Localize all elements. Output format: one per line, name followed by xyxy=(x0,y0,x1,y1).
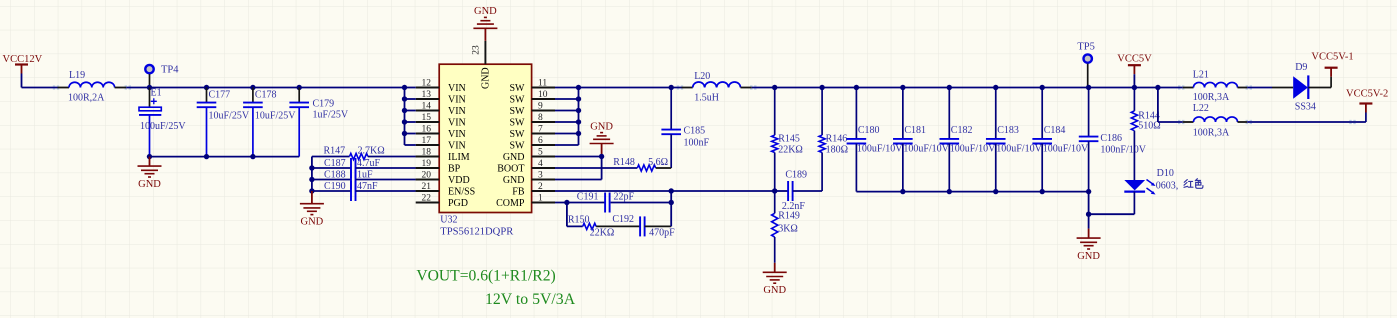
svg-text:1: 1 xyxy=(538,194,543,204)
svg-text:22KΩ: 22KΩ xyxy=(590,228,615,239)
svg-text:C191: C191 xyxy=(577,192,599,203)
ground output text xyxy=(1077,251,1100,262)
value C182 100uF/10V xyxy=(950,144,996,155)
value C185 100nF xyxy=(684,138,710,149)
junction C177 top xyxy=(204,85,209,90)
value C181 100uF/10V xyxy=(903,144,949,155)
junction C177 bottom xyxy=(204,154,209,159)
svg-text:GND: GND xyxy=(763,285,786,296)
pin 15 VIN xyxy=(416,113,466,128)
svg-text:11: 11 xyxy=(538,79,547,89)
svg-text:GND: GND xyxy=(481,67,492,89)
junction SW bus pin 9 xyxy=(576,108,581,113)
pin 2 FB xyxy=(512,182,555,197)
value R148 5.6&#937; xyxy=(648,157,668,168)
value L20 1.5uH xyxy=(694,92,719,103)
label C185 xyxy=(684,126,706,137)
label R144 xyxy=(1138,111,1160,122)
svg-text:R149: R149 xyxy=(778,211,800,222)
svg-text:C178: C178 xyxy=(255,89,277,100)
svg-text:7: 7 xyxy=(538,125,543,135)
junction SW bus pin 10 xyxy=(576,96,581,101)
value D10 0603 xyxy=(1156,181,1179,192)
value C178 10uF/25V xyxy=(255,110,296,121)
svg-text:C185: C185 xyxy=(684,126,706,137)
svg-text:47nF: 47nF xyxy=(357,181,378,192)
diode D9 SS34 xyxy=(1293,75,1308,99)
junction C181 top xyxy=(900,85,905,90)
value C177 10uF/25V xyxy=(209,110,250,121)
svg-text:COMP: COMP xyxy=(496,198,525,209)
value C190 47nF xyxy=(357,181,378,192)
svg-text:TP4: TP4 xyxy=(161,65,179,76)
svg-text:100uF/10V: 100uF/10V xyxy=(1043,144,1089,155)
svg-text:0603,: 0603, xyxy=(1156,181,1179,192)
pin stub L19 left xyxy=(53,86,69,89)
ground output xyxy=(1077,229,1101,249)
svg-text:1uF: 1uF xyxy=(357,170,373,181)
label C181 xyxy=(904,125,926,136)
svg-text:5.6Ω: 5.6Ω xyxy=(648,157,668,168)
junction C187 left xyxy=(309,165,314,170)
svg-text:13: 13 xyxy=(422,90,432,100)
svg-text:C184: C184 xyxy=(1044,125,1066,136)
label C188 xyxy=(324,170,346,181)
capacitor C187 xyxy=(312,158,439,178)
label C191 xyxy=(577,192,599,203)
label L21 xyxy=(1193,70,1209,81)
pin stub D9 anode xyxy=(1272,87,1293,89)
pin 16 VIN xyxy=(416,125,466,140)
resistor R145 xyxy=(772,88,778,192)
junction C183 top xyxy=(993,85,998,90)
svg-text:FB: FB xyxy=(512,186,525,197)
capacitor C181 xyxy=(893,88,913,192)
value D10 hongse (red) CJK xyxy=(1184,179,1203,189)
svg-text:VCC5V-1: VCC5V-1 xyxy=(1311,52,1353,63)
svg-text:R146: R146 xyxy=(826,134,848,145)
wire pin5 to gnd xyxy=(555,156,602,158)
label L19 xyxy=(69,70,85,81)
svg-text:2.7KΩ: 2.7KΩ xyxy=(358,146,385,157)
junction output gnd corner xyxy=(1086,189,1091,194)
resistor R148 xyxy=(555,165,671,171)
svg-text:SW: SW xyxy=(510,129,526,140)
pin 17 VIN xyxy=(416,136,466,151)
wire bus to pin 13 xyxy=(405,98,416,100)
ground pin23 text xyxy=(474,6,497,17)
LED D10 xyxy=(1124,180,1155,215)
junction bus pin 13 xyxy=(402,96,407,101)
ground bypass rail text xyxy=(301,216,324,227)
wire bus to pin 16 xyxy=(405,133,416,135)
power port VCC5V-1 xyxy=(1325,68,1338,88)
svg-text:2: 2 xyxy=(538,182,543,192)
svg-text:E1: E1 xyxy=(151,88,162,99)
svg-text:180Ω: 180Ω xyxy=(826,145,848,156)
svg-text:C187: C187 xyxy=(324,158,346,169)
pin stub L20 left xyxy=(677,86,693,89)
svg-text:22KΩ: 22KΩ xyxy=(778,145,803,156)
svg-text:3: 3 xyxy=(538,171,543,181)
junction C182 top xyxy=(947,85,952,90)
value D9 SS34 xyxy=(1295,102,1316,113)
pin 21 EN/SS xyxy=(416,182,476,197)
capacitor E1 (electrolytic) xyxy=(139,88,161,157)
junction bus pin 14 xyxy=(402,108,407,113)
label R147 xyxy=(324,146,346,157)
svg-text:L20: L20 xyxy=(694,71,710,82)
svg-text:VIN: VIN xyxy=(448,117,466,128)
svg-text:VIN: VIN xyxy=(448,129,466,140)
svg-text:R147: R147 xyxy=(324,146,346,157)
svg-text:C182: C182 xyxy=(951,125,973,136)
junction bus pin 12 xyxy=(402,85,407,90)
junction gnd D10 branch xyxy=(1086,212,1091,217)
label C189 xyxy=(785,169,807,180)
wire VCC12V to L19 xyxy=(22,87,58,89)
junction FB x671 xyxy=(669,188,674,193)
junction VCC5V xyxy=(1132,85,1137,90)
wire bus to pin 15 xyxy=(405,121,416,123)
junction R146 top xyxy=(819,85,824,90)
label C187 xyxy=(324,158,346,169)
pin 6 SW xyxy=(510,136,556,151)
junction R145 top xyxy=(772,85,777,90)
svg-text:470pF: 470pF xyxy=(649,227,675,238)
junction mid gnd xyxy=(599,154,604,159)
label VCC5V-1 xyxy=(1311,52,1353,63)
ground bypass rail xyxy=(300,191,324,215)
junction C186 top xyxy=(1086,85,1091,90)
svg-text:100uF/10V: 100uF/10V xyxy=(903,144,949,155)
svg-text:100nF: 100nF xyxy=(684,138,710,149)
svg-text:19: 19 xyxy=(422,159,432,169)
SW bus vertical xyxy=(578,88,580,146)
junction SW bus pin 11 xyxy=(576,85,581,90)
ground R149 xyxy=(763,263,787,283)
svg-text:EN/SS: EN/SS xyxy=(448,186,475,197)
svg-text:21: 21 xyxy=(422,182,432,192)
svg-text:GND: GND xyxy=(138,179,161,190)
inductor L21 xyxy=(1194,82,1238,87)
svg-text:L22: L22 xyxy=(1193,103,1209,114)
svg-text:C190: C190 xyxy=(324,181,346,192)
wire FB net pin2 xyxy=(555,190,775,192)
power port VCC5V-2 xyxy=(1359,104,1372,123)
svg-text:VDD: VDD xyxy=(448,175,470,186)
label C184 xyxy=(1044,125,1066,136)
junction L21/L22 branch xyxy=(1155,85,1160,90)
ground input xyxy=(138,157,162,177)
svg-text:L19: L19 xyxy=(69,70,85,81)
pin 14 VIN xyxy=(416,102,466,117)
wire L19 to VIN bus xyxy=(126,87,404,89)
svg-text:4: 4 xyxy=(538,159,543,169)
pin stub L21 right xyxy=(1238,86,1253,89)
label C182 xyxy=(951,125,973,136)
pin 5 GND xyxy=(503,148,555,163)
svg-text:C177: C177 xyxy=(209,89,231,100)
label C179 xyxy=(313,99,335,110)
svg-text:3KΩ: 3KΩ xyxy=(778,224,798,235)
svg-text:100R,2A: 100R,2A xyxy=(68,93,105,104)
junction bus pin 15 xyxy=(402,119,407,124)
svg-text:C181: C181 xyxy=(904,125,926,136)
svg-text:VIN: VIN xyxy=(448,106,466,117)
wire branch down to L22 row xyxy=(1157,88,1159,123)
resistor R147 xyxy=(312,153,439,159)
input ground rail xyxy=(150,156,300,158)
label D10 xyxy=(1157,168,1174,179)
label D9 xyxy=(1295,62,1307,73)
value R150 22K&#937; xyxy=(590,228,615,239)
ground input text xyxy=(138,179,161,190)
value E1 100uF/25V xyxy=(140,121,186,132)
pin 22 PGD xyxy=(416,194,468,209)
svg-text:10: 10 xyxy=(538,90,548,100)
svg-text:22pF: 22pF xyxy=(614,192,635,203)
label C183 xyxy=(997,125,1019,136)
wire pin 9 to SW bus xyxy=(555,110,579,112)
svg-text:C186: C186 xyxy=(1100,133,1122,144)
label C178 xyxy=(255,89,277,100)
svg-text:20: 20 xyxy=(422,171,432,181)
svg-text:SW: SW xyxy=(510,106,526,117)
wire to L21 xyxy=(1158,87,1183,89)
power port VCC12V text xyxy=(3,54,43,65)
svg-text:GND: GND xyxy=(503,152,525,163)
junction node E1/TP4 xyxy=(147,85,152,90)
wire bus to pin 17 xyxy=(405,144,416,146)
wire L22 to VCC5V-2 xyxy=(1247,121,1366,123)
capacitor C185 xyxy=(661,88,681,169)
svg-text:VIN: VIN xyxy=(448,140,466,151)
label E1 xyxy=(151,88,162,99)
wire C192 up to FB xyxy=(670,191,672,226)
label C186 xyxy=(1100,133,1122,144)
pin stub L22 right xyxy=(1238,120,1253,123)
svg-text:100nF/10V: 100nF/10V xyxy=(1100,145,1146,156)
svg-text:4.7uF: 4.7uF xyxy=(357,158,381,169)
junction SW bus pin 7 xyxy=(576,131,581,136)
inductor L22 xyxy=(1194,117,1238,122)
capacitor C183 xyxy=(986,88,1006,192)
junction C178 top xyxy=(250,85,255,90)
pin 11 SW xyxy=(510,79,556,94)
value L21 100R,3A xyxy=(1193,92,1230,103)
label L22 xyxy=(1193,103,1209,114)
value C186 100nF/10V xyxy=(1100,145,1146,156)
svg-text:8: 8 xyxy=(538,113,543,123)
ground mid text xyxy=(590,121,613,132)
svg-text:VCC5V: VCC5V xyxy=(1117,54,1152,65)
grip mark VCC5V-2 corner xyxy=(1349,120,1355,123)
svg-text:100uF/10V: 100uF/10V xyxy=(950,144,996,155)
test point TP5 text xyxy=(1077,41,1095,52)
svg-text:C192: C192 xyxy=(612,214,634,225)
svg-text:9: 9 xyxy=(538,102,543,112)
label C192 xyxy=(612,214,634,225)
svg-text:VCC12V: VCC12V xyxy=(3,54,43,65)
test point TP5 xyxy=(1084,54,1092,87)
junction C184 top xyxy=(1040,85,1045,90)
label L20 xyxy=(694,71,710,82)
capacitor C188 xyxy=(312,170,439,190)
capacitor C179 xyxy=(289,88,309,157)
power port VCC12V xyxy=(15,65,28,88)
value C184 100uF/10V xyxy=(1043,144,1089,155)
svg-text:100uF/10V: 100uF/10V xyxy=(857,144,903,155)
svg-text:17: 17 xyxy=(422,136,432,146)
svg-text:C188: C188 xyxy=(324,170,346,181)
svg-text:16: 16 xyxy=(422,125,432,135)
pin stub L19 right xyxy=(115,86,131,89)
label C190 xyxy=(324,181,346,192)
wire comp branch down xyxy=(566,203,568,227)
svg-text:C183: C183 xyxy=(997,125,1019,136)
svg-text:ILIM: ILIM xyxy=(448,152,470,163)
ground pin23 xyxy=(473,17,497,40)
junction output gnd rail 1 xyxy=(900,189,905,194)
part number TPS56121DQPR xyxy=(440,227,514,238)
value C189 2.2nF xyxy=(782,201,806,212)
svg-text:SS34: SS34 xyxy=(1295,102,1316,113)
value C183 100uF/10V xyxy=(996,144,1042,155)
value C180 100uF/10V xyxy=(857,144,903,155)
pin 23 GND top xyxy=(472,41,492,89)
svg-text:6: 6 xyxy=(538,136,543,146)
pin 9 SW xyxy=(510,102,556,117)
svg-text:R148: R148 xyxy=(613,157,635,168)
pin stub L21 left xyxy=(1178,86,1194,89)
capacitor C178 xyxy=(243,88,263,157)
pin 13 VIN xyxy=(416,90,466,105)
capacitor C189 xyxy=(775,181,822,201)
value R146 xyxy=(826,145,848,156)
capacitor C186 xyxy=(1079,88,1099,192)
formula VOUT xyxy=(416,268,555,285)
wire bus to pin 12 xyxy=(405,87,416,89)
svg-text:5: 5 xyxy=(538,148,543,158)
svg-text:100R,3A: 100R,3A xyxy=(1193,92,1230,103)
capacitor C191 xyxy=(555,193,671,213)
svg-text:22: 22 xyxy=(422,194,432,204)
value L19 100R,2A xyxy=(68,93,105,104)
svg-text:15: 15 xyxy=(422,113,432,123)
output ground rail xyxy=(856,191,1088,193)
VIN bus vertical xyxy=(404,88,406,146)
test point TP4 text xyxy=(161,65,179,76)
svg-text:510Ω: 510Ω xyxy=(1138,121,1160,132)
op-amp U32 TPS56121DQPR body xyxy=(439,64,531,212)
ground mid xyxy=(590,133,614,157)
svg-text:1.5uH: 1.5uH xyxy=(694,92,719,103)
designator U32 xyxy=(440,215,457,226)
svg-text:10uF/25V: 10uF/25V xyxy=(209,110,250,121)
bypass left rail xyxy=(311,157,313,192)
label R149 xyxy=(778,211,800,222)
svg-text:18: 18 xyxy=(422,148,432,158)
pin 8 SW xyxy=(510,113,556,128)
value R147 2.7K&#937; xyxy=(358,146,385,157)
svg-text:GND: GND xyxy=(503,175,525,186)
power port VCC5V xyxy=(1128,65,1141,87)
value C192 470pF xyxy=(649,227,675,238)
junction output gnd rail 3 xyxy=(993,189,998,194)
svg-text:VOUT=0.6(1+R1/R2): VOUT=0.6(1+R1/R2) xyxy=(416,268,555,285)
label VCC5V-2 xyxy=(1346,89,1388,100)
label R150 xyxy=(568,215,590,226)
svg-text:10uF/25V: 10uF/25V xyxy=(255,110,296,121)
wire pin3 to gnd xyxy=(555,179,602,181)
svg-text:GND: GND xyxy=(590,121,613,132)
formula 12V to 5V/3A xyxy=(485,291,576,308)
wire bus to pin 14 xyxy=(405,110,416,112)
svg-text:U32: U32 xyxy=(440,215,457,226)
svg-text:SW: SW xyxy=(510,94,526,105)
junction C179 top xyxy=(297,85,302,90)
wire D9 to VCC5V-1 xyxy=(1308,87,1331,89)
svg-text:GND: GND xyxy=(474,6,497,17)
wire pin 6 to SW bus xyxy=(555,144,579,146)
pin 1 COMP xyxy=(496,194,555,209)
junction output gnd rail 2 xyxy=(947,189,952,194)
pin 10 SW xyxy=(510,90,556,105)
svg-text:VIN: VIN xyxy=(448,83,466,94)
test point TP4 xyxy=(145,65,153,88)
svg-text:12: 12 xyxy=(422,79,432,89)
resistor R146 xyxy=(819,88,825,192)
value C179 1uF/25V xyxy=(313,110,349,121)
pin 18 ILIM xyxy=(416,148,470,163)
svg-text:C189: C189 xyxy=(785,169,807,180)
capacitor C182 xyxy=(940,88,960,192)
inductor L20 xyxy=(693,82,741,87)
svg-text:TPS56121DQPR: TPS56121DQPR xyxy=(440,227,514,238)
resistor R149 xyxy=(772,191,778,263)
wire gnd rail down xyxy=(1088,192,1090,215)
wire to L22 xyxy=(1158,121,1183,123)
ground R149 text xyxy=(763,285,786,296)
svg-text:SW: SW xyxy=(510,83,526,94)
output rail xyxy=(752,87,1158,89)
wire pin 8 to SW bus xyxy=(555,121,579,123)
junction C188 left xyxy=(309,177,314,182)
capacitor C190 xyxy=(312,181,439,201)
value C188 1uF xyxy=(357,170,373,181)
svg-text:BP: BP xyxy=(448,163,461,174)
wire pin 10 to SW bus xyxy=(555,98,579,100)
junction FB R145 bottom xyxy=(772,188,777,193)
svg-text:GND: GND xyxy=(301,216,324,227)
junction C185 top xyxy=(669,85,674,90)
inductor L19 xyxy=(69,82,115,87)
svg-text:SW: SW xyxy=(510,117,526,128)
svg-text:PGD: PGD xyxy=(448,198,468,209)
value R144 510&#937; xyxy=(1138,121,1160,132)
pin 20 VDD xyxy=(416,171,470,186)
svg-text:D9: D9 xyxy=(1295,62,1307,73)
value C187 4.7uF xyxy=(357,158,381,169)
junction E1 bottom xyxy=(147,154,152,159)
label R145 xyxy=(778,134,800,145)
junction C180 top xyxy=(854,85,859,90)
value R149 3K&#937; xyxy=(778,224,798,235)
pin 12 VIN xyxy=(416,79,466,94)
junction output gnd rail 4 xyxy=(1040,189,1045,194)
wire gnd stem xyxy=(1088,214,1090,228)
